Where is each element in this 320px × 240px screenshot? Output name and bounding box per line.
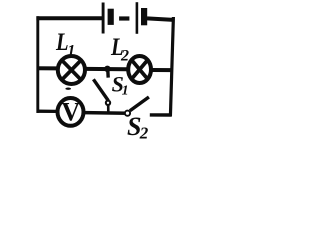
voltmeter V circle xyxy=(58,98,84,126)
battery cell 1 long thin plate (positive) xyxy=(102,3,105,34)
wire top rail right segment xyxy=(147,18,173,20)
svg-text:1: 1 xyxy=(67,43,75,60)
lamp L2 cross X xyxy=(132,60,148,79)
wire middle rail from L1 to junction and L2 xyxy=(86,67,127,71)
wire right edge xyxy=(170,17,173,116)
wire top rail left segment xyxy=(36,16,102,20)
switch S1 pivot stem to bottom rail xyxy=(107,105,110,112)
switch S1 junction dot on middle rail xyxy=(104,66,110,72)
wire middle rail from left edge to lamp L1 xyxy=(37,66,57,70)
battery cell 2 short thick plate (negative) xyxy=(141,8,147,25)
battery cell 2 long thin plate (positive) xyxy=(136,2,139,34)
battery cell 1 short thick plate (negative) xyxy=(108,9,114,25)
switch S2 blade (open, leaning up-right) xyxy=(130,97,149,111)
wire bottom rail fixed contact segment of S2 to right corner xyxy=(150,113,172,116)
svg-text:V: V xyxy=(61,97,80,126)
wire middle rail from L2 to right edge xyxy=(153,68,173,72)
ink speck below lamp L1 xyxy=(65,88,71,90)
switch S1 pivot ring xyxy=(106,101,110,105)
svg-text:1: 1 xyxy=(122,84,129,99)
lamp L1 circle xyxy=(58,56,85,84)
wire bottom rail from voltmeter to switch S1 pivot and S2 pivot xyxy=(85,111,129,115)
lamp L2 circle xyxy=(128,56,151,83)
switch S2 pivot ring xyxy=(125,111,130,116)
switch S1 blade (open, leaning up-left) xyxy=(93,79,108,100)
switch S1 fixed contact stub below middle rail junction xyxy=(106,70,110,78)
lamp L1 cross X xyxy=(62,60,81,80)
wire bottom rail from left edge to voltmeter xyxy=(37,110,57,114)
wire left edge xyxy=(36,16,39,113)
svg-text:2: 2 xyxy=(139,124,149,143)
svg-text:2: 2 xyxy=(120,47,129,64)
wire dash between battery cells xyxy=(119,16,129,20)
